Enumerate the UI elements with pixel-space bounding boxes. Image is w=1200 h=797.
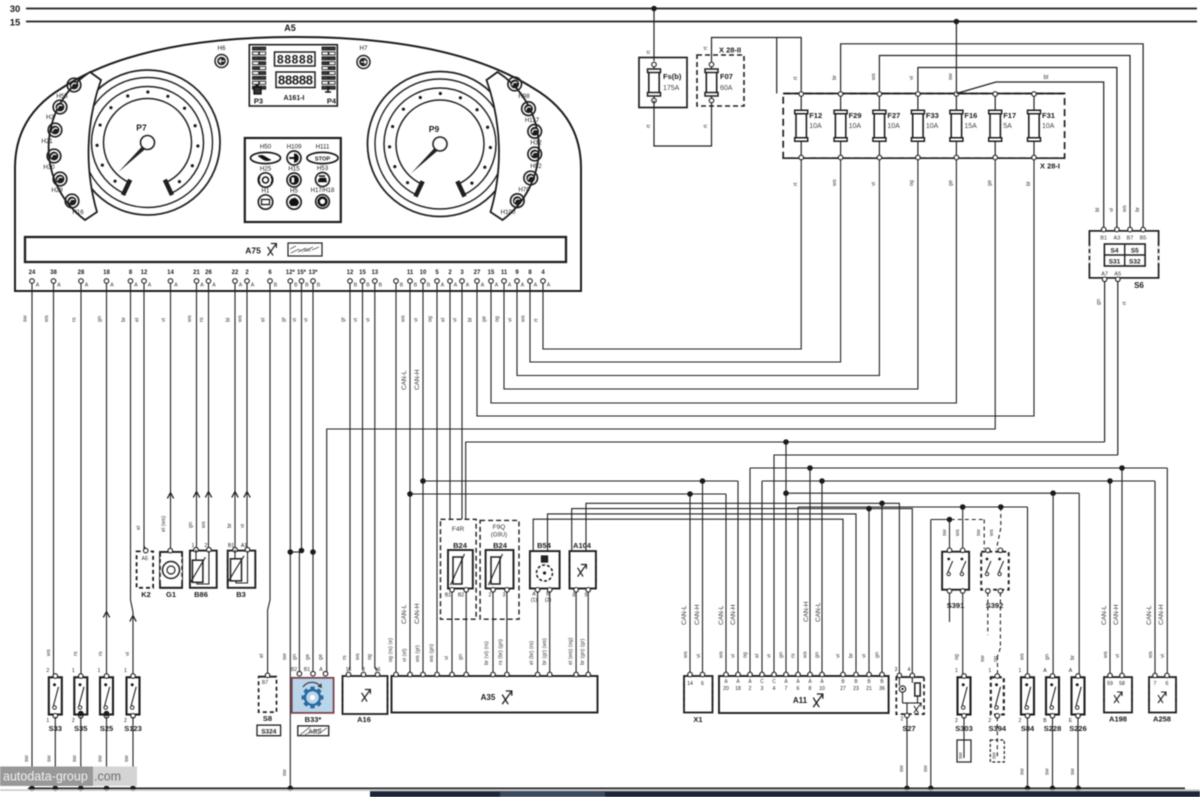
wire S391 pins up [949, 520, 951, 550]
svg-text:sw: sw [282, 653, 288, 660]
bottom scan line [0, 789, 1200, 790]
svg-text:A: A [534, 283, 538, 289]
connector strip A75 [25, 237, 566, 262]
switch S25 [100, 677, 113, 714]
ground bar [28, 787, 1185, 789]
svg-text:br: br [1070, 655, 1076, 660]
svg-text:gr: gr [341, 317, 347, 322]
svg-text:ws: ws [989, 529, 995, 537]
svg-text:2: 2 [901, 717, 904, 723]
svg-text:ws: ws [46, 649, 52, 657]
control unit B33 (highlighted) [292, 678, 334, 713]
CAN-L horizontal to X1 and A11 [410, 493, 726, 495]
svg-text:H111: H111 [316, 144, 330, 151]
svg-text:16: 16 [375, 667, 381, 673]
fuse F31 [1033, 96, 1035, 111]
svg-text:el (ws): el (ws) [161, 516, 167, 532]
svg-text:rt: rt [646, 50, 652, 54]
svg-text:P4: P4 [327, 97, 337, 106]
svg-text:2: 2 [489, 593, 492, 599]
bus 30 [26, 8, 1197, 10]
wire pin4 ws to F29 [530, 160, 841, 362]
svg-text:15: 15 [488, 270, 495, 276]
svg-text:S324: S324 [261, 729, 277, 736]
svg-text:B24: B24 [493, 541, 508, 550]
warning lamp H52 [528, 147, 542, 161]
wire pin13* to B33 pinB1 [312, 284, 314, 673]
svg-text:B: B [354, 283, 358, 289]
switch S394 [991, 677, 1004, 714]
connector X28-II box [697, 55, 744, 106]
svg-text:CAN-H: CAN-H [1158, 604, 1165, 625]
svg-text:F07: F07 [720, 72, 733, 81]
svg-text:88888: 88888 [278, 73, 313, 88]
wire CAN-L from pin10 to A35 [409, 284, 411, 675]
sensor B24 F4R [448, 550, 473, 589]
svg-text:14: 14 [687, 681, 693, 687]
svg-text:rt: rt [703, 46, 709, 50]
wire pin22 to B3 pinB1 [234, 284, 236, 549]
svg-text:B: B [366, 283, 370, 289]
svg-text:23: 23 [853, 686, 859, 692]
svg-text:B: B [274, 283, 278, 289]
svg-text:autodata-group: autodata-group [3, 770, 88, 784]
svg-text:H29: H29 [51, 187, 63, 194]
svg-text:og: og [954, 654, 960, 660]
switch unit S391 [942, 552, 969, 590]
svg-text:A: A [174, 283, 178, 289]
warning lamp H55 [67, 78, 81, 92]
svg-text:A: A [454, 283, 458, 289]
fuse box X28-I [783, 94, 1064, 159]
svg-text:B: B [317, 283, 321, 289]
svg-text:B33*: B33* [305, 715, 322, 724]
svg-text:sw: sw [46, 755, 52, 762]
svg-text:ge: ge [482, 316, 488, 322]
A75 option code box [288, 243, 322, 256]
svg-text:rs: rs [791, 653, 797, 658]
svg-text:2: 2 [46, 668, 49, 674]
gauge P7 outer [75, 70, 220, 215]
svg-text:vi: vi [696, 654, 702, 658]
switch S303 [958, 677, 971, 714]
svg-text:sw: sw [98, 755, 104, 762]
wire pin18 to S25 [106, 284, 108, 676]
svg-text:9: 9 [585, 593, 588, 599]
svg-text:rt: rt [1122, 301, 1128, 305]
svg-text:X 28-I: X 28-I [1040, 162, 1060, 171]
wire pin13 to A16 pin16 [374, 284, 376, 669]
svg-text:3: 3 [362, 667, 365, 673]
wire S392 right dashed drop [998, 504, 1004, 510]
svg-text:A: A [319, 667, 323, 673]
svg-text:27: 27 [474, 270, 481, 276]
gauge P7 needle [119, 141, 151, 173]
svg-text:13: 13 [371, 270, 378, 276]
svg-text:A7: A7 [1101, 272, 1108, 278]
wire pin21 to B86 pin1 [196, 284, 198, 549]
svg-text:6: 6 [701, 681, 704, 687]
svg-text:sw: sw [1020, 768, 1026, 775]
svg-text:H70: H70 [518, 187, 530, 194]
wire A104 pin8 line to S27 pin4 [572, 509, 913, 676]
switch unit S392 [981, 552, 1009, 590]
svg-text:vi: vi [862, 654, 868, 658]
indicator lamp box [245, 138, 341, 222]
svg-text:rt: rt [534, 318, 540, 322]
svg-text:36: 36 [879, 686, 885, 692]
svg-text:Fs(b): Fs(b) [663, 72, 682, 81]
svg-text:A: A [110, 283, 114, 289]
wire A11 pin6 to S391 right / S84 [797, 507, 799, 675]
svg-text:rt: rt [793, 182, 799, 186]
svg-text:22: 22 [232, 270, 239, 276]
icon fuel P3 [254, 85, 261, 94]
wire S391 right to S303 [962, 593, 964, 676]
svg-text:A: A [251, 283, 255, 289]
svg-text:ws (gr): ws (gr) [415, 645, 421, 663]
svg-text:F9Q: F9Q [493, 524, 506, 531]
svg-text:ws: ws [1020, 653, 1026, 661]
switch S33 [49, 677, 62, 714]
svg-text:A: A [1069, 668, 1073, 674]
svg-text:ws: ws [719, 651, 725, 659]
svg-text:A16: A16 [357, 715, 371, 724]
svg-text:S31: S31 [1109, 259, 1121, 266]
svg-text:5A: 5A [1003, 123, 1012, 130]
svg-text:gn: gn [458, 654, 464, 660]
svg-text:B24: B24 [453, 541, 468, 550]
svg-text:sw: sw [23, 315, 29, 322]
wire A104 pin8 to A35 [575, 592, 577, 675]
svg-text:B: B [427, 283, 431, 289]
svg-text:CAN-L: CAN-L [401, 370, 408, 390]
svg-text:H53: H53 [317, 165, 329, 172]
svg-text:20: 20 [723, 686, 729, 692]
svg-text:A: A [85, 283, 89, 289]
wire A104 pin9 line to S27 pin3 [586, 503, 899, 675]
svg-text:A: A [521, 283, 525, 289]
svg-text:H2: H2 [46, 114, 54, 121]
wire A104 pin9 to A35 [587, 592, 589, 675]
svg-text:vi: vi [161, 318, 167, 322]
svg-text:ge: ge [305, 654, 311, 660]
svg-text:gn: gn [875, 652, 881, 658]
svg-text:30: 30 [10, 4, 21, 15]
svg-text:CAN-L: CAN-L [1146, 605, 1153, 625]
svg-text:C: C [760, 679, 764, 685]
warning lamp H2 [53, 100, 67, 114]
wire pin26 to B86 pin2 [208, 284, 210, 549]
svg-text:8: 8 [809, 686, 812, 692]
svg-text:A: A [441, 283, 445, 289]
svg-text:gn: gn [1096, 299, 1102, 305]
svg-text:B7: B7 [262, 680, 268, 686]
svg-text:sw: sw [72, 755, 78, 762]
switch S228 [1046, 677, 1059, 714]
svg-text:H25: H25 [260, 166, 272, 173]
svg-text:vi: vi [836, 654, 842, 658]
wire pin15 bl to F31 [477, 160, 1034, 416]
svg-text:14: 14 [167, 270, 174, 276]
warning lamp H70 [524, 171, 538, 185]
svg-text:ws: ws [401, 315, 407, 323]
svg-text:el: el [261, 318, 267, 322]
CAN-H extension to A198 A258 [750, 467, 1167, 469]
connector X1 [684, 676, 713, 713]
wire B24 F4R pinB1 to A35 [451, 592, 453, 675]
svg-text:CAN-L: CAN-L [1101, 605, 1108, 625]
svg-text:vi: vi [453, 318, 459, 322]
svg-text:38: 38 [50, 270, 57, 276]
svg-text:1: 1 [955, 668, 958, 674]
svg-text:8: 8 [573, 593, 576, 599]
svg-text:A: A [495, 283, 499, 289]
svg-text:CAN-L: CAN-L [815, 602, 822, 622]
wire pin12 to A16 pin15 [349, 284, 351, 669]
svg-text:15: 15 [346, 667, 352, 673]
svg-text:3: 3 [761, 686, 764, 692]
svg-text:4: 4 [908, 667, 911, 673]
control unit A198 [1104, 677, 1132, 712]
wire F27 tap to S6 pin B7 (ws) [879, 56, 1130, 228]
wire F29 tap to S6 pin B5 (br) [841, 44, 1144, 227]
wire F07 to fuse box bus [712, 38, 802, 92]
gauge P7 scale arc [92, 87, 204, 194]
svg-text:7: 7 [785, 686, 788, 692]
junction bus15 to fuse box [954, 19, 960, 25]
wire F17 ge to B33 pinA [327, 160, 996, 673]
wire pin24 sw to ground [31, 284, 33, 789]
svg-text:1: 1 [124, 668, 127, 674]
svg-text:el (ws) (og): el (ws) (og) [568, 637, 574, 665]
S6 internal relays S4 S5 S31 S32 [1104, 244, 1145, 266]
svg-text:vi: vi [1160, 654, 1166, 658]
fuse Fs(b) [653, 66, 655, 69]
wire B54 pinB to A35 [549, 592, 551, 675]
svg-text:B: B [414, 283, 418, 289]
svg-text:A: A [134, 283, 138, 289]
wire pin28 to S35 [80, 284, 82, 676]
svg-text:10A: 10A [926, 123, 939, 130]
svg-text:H5: H5 [290, 188, 298, 195]
svg-text:11: 11 [501, 270, 508, 276]
svg-text:A: A [466, 283, 470, 289]
svg-text:15: 15 [10, 18, 21, 29]
svg-text:bl: bl [468, 318, 474, 322]
svg-text:59: 59 [1107, 681, 1113, 687]
svg-text:B2: B2 [291, 667, 297, 673]
svg-text:F29: F29 [849, 111, 862, 120]
svg-text:br (gr) (ws): br (gr) (ws) [542, 638, 548, 665]
svg-text:CAN-H: CAN-H [414, 369, 421, 390]
svg-text:10A: 10A [1042, 123, 1055, 130]
svg-text:CAN-L: CAN-L [681, 605, 688, 625]
svg-text:A: A [212, 283, 216, 289]
wire S391 left down [949, 593, 951, 623]
svg-text:F16: F16 [964, 111, 977, 120]
right lamp arc panel [487, 72, 539, 220]
svg-text:rs: rs [342, 655, 348, 660]
display digits upper [275, 52, 316, 66]
sensor B3 [228, 551, 256, 588]
svg-text:H32: H32 [530, 140, 542, 147]
svg-text:og: og [993, 656, 999, 662]
svg-text:og: og [743, 652, 749, 658]
svg-text:58: 58 [1119, 681, 1125, 687]
switch S123 [127, 677, 140, 714]
svg-text:el: el [755, 654, 761, 658]
svg-text:X1: X1 [693, 715, 702, 724]
svg-text:G1: G1 [166, 590, 176, 599]
svg-text:sw: sw [1070, 768, 1076, 775]
svg-text:(1): (1) [531, 598, 538, 604]
svg-text:el: el [136, 526, 142, 530]
svg-text:B: B [379, 283, 383, 289]
svg-text:A198: A198 [1109, 715, 1127, 724]
wire Fs(b) to F07 [654, 101, 712, 147]
wire B24 F4R pinB2 to A35 [465, 592, 467, 675]
svg-text:br: br [849, 653, 855, 658]
svg-text:F4R: F4R [452, 526, 465, 533]
wire pin9 og to F33 [504, 160, 918, 389]
fuse F07 [711, 66, 713, 69]
svg-text:sw: sw [899, 765, 905, 772]
svg-text:28: 28 [78, 270, 85, 276]
svg-text:ws: ws [521, 315, 527, 323]
svg-text:H109: H109 [287, 144, 302, 151]
svg-text:F27: F27 [887, 111, 900, 120]
svg-text:H17/H18: H17/H18 [311, 188, 335, 194]
control unit A258 [1149, 677, 1176, 712]
svg-text:P7: P7 [136, 123, 147, 133]
control unit A16 [343, 676, 388, 714]
wire pin27 vi to B24 F4R [461, 284, 463, 520]
gauge P9 outer [368, 72, 513, 217]
svg-text:vi: vi [125, 652, 131, 656]
wire bus30 to Fs(b) [653, 9, 655, 62]
fuse Fs(b) box [639, 58, 687, 108]
svg-text:A161-I: A161-I [283, 95, 304, 102]
svg-text:gr: gr [281, 317, 287, 322]
svg-text:S32: S32 [1129, 259, 1141, 266]
svg-text:bl: bl [1026, 182, 1032, 186]
wire pin12 to K2 [143, 284, 145, 550]
svg-text:1: 1 [988, 668, 991, 674]
svg-text:STOP: STOP [315, 156, 330, 162]
svg-text:F12: F12 [809, 111, 822, 120]
svg-text:ws: ws [187, 315, 193, 323]
svg-text:ge: ge [948, 180, 954, 186]
svg-text:A: A [239, 283, 243, 289]
svg-text:ws: ws [1103, 651, 1109, 659]
switch S35 [74, 677, 87, 714]
svg-text:bl: bl [226, 318, 232, 322]
svg-text:H117: H117 [525, 117, 540, 124]
svg-text:ws: ws [355, 653, 361, 661]
S394 sw label box dashed [990, 740, 1004, 762]
control unit A35 [392, 676, 598, 713]
svg-text:H52: H52 [530, 163, 542, 170]
relay K2 [137, 551, 154, 587]
svg-text:sw: sw [124, 755, 130, 762]
svg-text:10A: 10A [887, 123, 900, 130]
bus 15 [26, 21, 1197, 23]
junction bus30 to Fs(b) [651, 6, 657, 12]
svg-text:12: 12 [141, 270, 148, 276]
svg-text:B1: B1 [304, 667, 310, 673]
svg-text:B5: B5 [1140, 236, 1147, 242]
fuse F17 [994, 96, 996, 111]
svg-text:X 28-II: X 28-II [719, 46, 741, 55]
svg-text:A5: A5 [1114, 272, 1121, 278]
svg-text:gn: gn [779, 652, 785, 658]
svg-text:F33: F33 [926, 111, 939, 120]
svg-text:F31: F31 [1042, 111, 1055, 120]
svg-text:og: og [367, 654, 373, 660]
svg-text:A: A [481, 283, 485, 289]
svg-text:sw: sw [948, 73, 954, 80]
wire S6 A5 to A11 pin4 [774, 455, 1118, 675]
svg-text:4: 4 [773, 686, 776, 692]
svg-text:br (gn) (gr): br (gn) (gr) [580, 639, 586, 665]
display unit A161-I box [249, 45, 337, 106]
svg-text:6: 6 [1166, 681, 1169, 687]
wire CAN-H from pin5 to A35 [422, 284, 424, 675]
svg-text:el: el [135, 318, 141, 322]
svg-text:12: 12 [347, 270, 354, 276]
switch S226 [1072, 677, 1085, 714]
svg-text:rs: rs [199, 317, 205, 322]
svg-text:≈˷±85: ≈˷±85 [299, 248, 311, 253]
svg-text:gn: gn [97, 316, 103, 322]
generator G1 [160, 552, 182, 588]
svg-text:24: 24 [29, 270, 36, 276]
svg-text:ge: ge [987, 180, 993, 186]
fuse F29 [840, 96, 842, 111]
svg-text:A258: A258 [1153, 715, 1171, 724]
wire pin38 to S33 [53, 284, 55, 675]
wire pin14 to G1 [170, 284, 172, 550]
svg-text:15: 15 [359, 270, 366, 276]
svg-text:S27: S27 [902, 724, 915, 733]
warning lamp H32 [528, 125, 542, 139]
svg-text:rt: rt [703, 124, 709, 128]
svg-text:AE: AE [142, 556, 149, 562]
warning lamp H30 [47, 149, 61, 163]
svg-text:175A: 175A [663, 85, 680, 92]
svg-text:CAN-L: CAN-L [718, 605, 725, 625]
svg-text:H100: H100 [501, 209, 516, 216]
svg-text:21: 21 [866, 686, 872, 692]
display P3 bar column [253, 47, 259, 50]
svg-text:vi: vi [731, 654, 737, 658]
svg-text:B1: B1 [445, 593, 451, 599]
svg-text:B7: B7 [1127, 236, 1134, 242]
fuse F33 [917, 96, 919, 111]
svg-text:B1: B1 [1100, 236, 1107, 242]
svg-text:H15: H15 [288, 166, 300, 173]
warning lamp H98 [508, 77, 522, 91]
variant box F4R [441, 519, 477, 619]
svg-text:sw: sw [991, 752, 997, 759]
svg-text:vi: vi [1109, 208, 1115, 212]
svg-text:og: og [909, 180, 915, 186]
variant box F9Q (G9U) [480, 520, 519, 619]
wire bus15 to F16 [955, 22, 957, 92]
svg-text:vi (el): vi (el) [402, 648, 408, 662]
svg-text:vi: vi [909, 76, 915, 80]
